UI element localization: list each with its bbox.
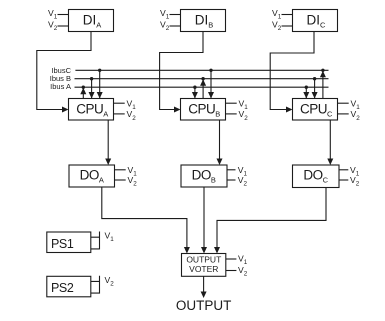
arrow Ibus B down into CPU_C [312,92,318,99]
junction dot Ibus B at CPU_B [201,77,204,80]
arrow into CPU_C left [286,107,293,113]
arrow Ibus A down into CPU_B [192,92,198,99]
block DO_C [293,165,340,188]
block CPU_C [293,99,338,121]
arrow DO_A into voter [184,247,190,254]
junction dot Ibus B at CPU_A [90,77,93,80]
wire Ibus B read to CPU_A [91,79,93,99]
wire CPU_A V2 tick [114,113,125,115]
svg-text:V2: V2 [160,20,170,33]
arrow DO_C into voter [214,247,220,254]
wire DI_B to CPU_B [160,32,203,110]
wire V2 tick to DI_A [58,25,69,27]
arrow CPU_C up to IbusC [320,71,326,78]
wire DO_B to voter [203,187,205,252]
wire DO_B V2 tick [227,179,236,181]
block OUTPUT VOTER [182,254,226,277]
junction dot Ibus A at CPU_C [305,86,308,89]
junction dot IbusC at CPU_B [209,69,212,72]
block DO_B [181,165,227,187]
svg-text:V2: V2 [238,265,248,278]
arrow IbusC down into CPU_B [208,92,214,99]
junction dot IbusC at CPU_A [98,69,101,72]
svg-text:VOTER: VOTER [189,264,218,274]
wire DO_A V1 tick [115,169,126,171]
wire V2 tick to DI_B [170,25,181,27]
junction dot Ibus A at CPU_A [82,86,85,89]
wire voter V2 tick [226,270,237,272]
bus Ibus B [75,78,329,80]
svg-text:V2: V2 [48,20,58,33]
wire DO_A to voter [102,187,187,252]
arrow CPU_A down into DO_A [105,159,111,166]
wire DO_B V1 tick [227,169,236,171]
arrow IbusC down into CPU_A [97,92,103,99]
bus Ibus A [75,86,329,88]
wire DO_C V1 tick [339,169,348,171]
wire DI_C to CPU_C [270,32,314,110]
svg-text:Ibus A: Ibus A [50,82,71,91]
wire CPU_A V1 tick [114,102,125,104]
svg-text:PS1: PS1 [51,237,74,251]
wire DO_A V2 tick [115,179,126,181]
arrow Ibus B down into CPU_A [89,92,95,99]
junction dot IbusC at CPU_C [321,69,324,72]
wire V2 tick to DI_C [282,25,293,27]
wire CPU_A to DO_A [107,120,109,163]
junction dot Ibus A at CPU_B [193,86,196,89]
wire CPU_B V2 tick [226,113,237,115]
wire voter V1 tick [226,258,237,260]
bus IbusC [75,69,328,71]
block CPU_A [69,99,114,121]
arrow Ibus A down into CPU_C [303,92,309,99]
svg-text:V1: V1 [105,231,115,244]
junction dot Ibus B at CPU_C [313,77,316,80]
wire DO_C to voter [217,188,326,252]
wire V1 tick to DI_B [170,14,181,16]
arrow CPU_A up to Ibus A [80,88,86,95]
block DI_C [293,10,338,32]
wire CPU_C to DO_C [329,120,331,163]
arrow into CPU_A left [62,107,69,113]
wire IbusC read to CPU_A [99,70,101,98]
svg-text:V2: V2 [105,275,115,288]
wire IbusC read to CPU_B [210,70,212,98]
arrow DO_B into voter [201,247,207,254]
wire DI_A to CPU_A [37,32,91,110]
arrow CPU_C down into DO_C [327,159,333,166]
svg-text:OUTPUT: OUTPUT [176,298,232,313]
arrow CPU_B up to Ibus B [200,79,206,86]
wire DO_C V2 tick [339,179,348,181]
wire Ibus B read to CPU_C [314,79,316,99]
block DI_A [69,10,114,32]
wire CPU_C V1 tick [338,102,349,104]
PS1 connector [91,232,100,250]
wire V1 tick to DI_A [58,14,69,16]
arrow into CPU_B left [174,107,181,113]
wire Ibus A read to CPU_B [194,87,196,98]
wire CPU_C write to IbusC [322,70,324,98]
wire CPU_C V2 tick [338,113,349,115]
wire V1 tick to DI_C [282,14,293,16]
block DO_A [69,165,115,187]
wire Ibus A read to CPU_C [305,87,307,98]
wire CPU_B write to Ibus B [202,79,204,99]
arrow CPU_B down into DO_B [217,159,223,166]
arrow voter output [201,292,207,299]
block DI_B [181,10,226,32]
wire voter output [203,276,205,292]
PS2 connector [91,276,100,294]
block PS2 [47,276,91,297]
wire CPU_A write to Ibus A [82,87,84,98]
wire CPU_B V1 tick [226,102,237,104]
block PS1 [47,232,91,253]
wire CPU_B to DO_B [219,120,221,163]
block CPU_B [181,99,226,121]
svg-text:V2: V2 [272,20,282,33]
svg-text:PS2: PS2 [51,281,74,295]
